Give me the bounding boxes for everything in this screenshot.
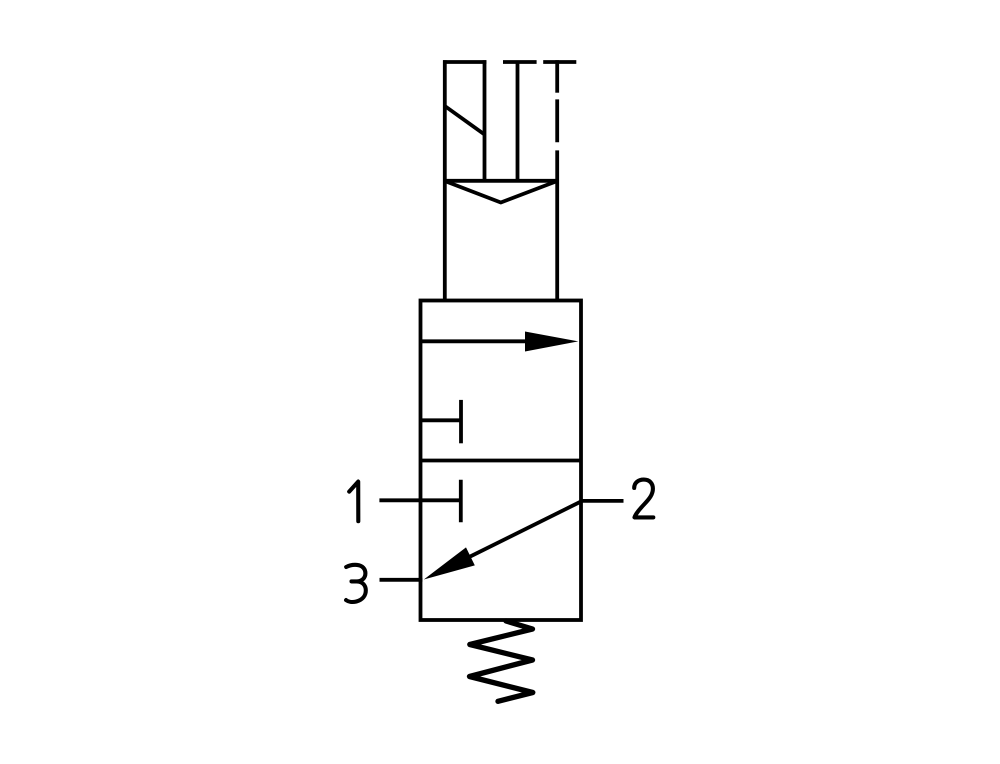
valve body outline — [421, 301, 582, 621]
port 1 line — [379, 498, 460, 502]
blocked port T horizontal (upper square) — [421, 418, 462, 422]
detent notch V (both diagonals) — [445, 181, 557, 203]
flow arrow head (upper square) — [525, 332, 578, 352]
right dashed vertical, dash 1 — [555, 60, 559, 92]
blocked port T vertical (upper square) — [459, 400, 463, 443]
spring (return spring below body) — [470, 621, 533, 701]
middle T top bar — [503, 60, 537, 64]
flow arrow shaft (upper square) — [421, 339, 541, 343]
port label 1 — [349, 482, 358, 522]
right dashed vertical, dash 3 (continues as stem right edge) — [555, 150, 559, 302]
port label 2 — [634, 480, 653, 518]
manual actuator left rectangle top bar — [443, 60, 486, 64]
right dashed vertical, dash 2 — [555, 99, 559, 142]
detent notch horizontal line — [445, 179, 557, 183]
manual actuator diagonal lever line — [445, 106, 485, 135]
right T top bar — [543, 60, 576, 64]
divider between valve positions — [421, 459, 582, 463]
flow diagonal arrow head (pointing to port 3) — [424, 547, 475, 579]
flow diagonal 2 to 3 shaft — [445, 502, 581, 570]
middle T vertical stem — [516, 62, 520, 181]
port 2 line — [581, 499, 624, 503]
port 3 line — [380, 578, 423, 582]
manual actuator left vertical (rectangle left edge + stem left edge) — [443, 60, 447, 302]
port label 3 — [346, 565, 366, 602]
manual actuator left rectangle right edge — [483, 60, 487, 181]
port 1 blocked T vertical — [459, 480, 463, 522]
